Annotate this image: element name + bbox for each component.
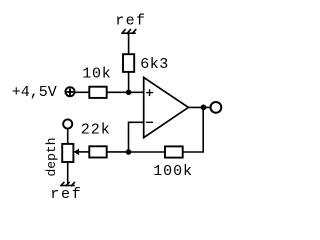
op-amp U1 bbox=[144, 77, 189, 137]
wire pot bottom to rail ref (bottom) bbox=[67, 162, 69, 186]
potentiometer wiper arrow bbox=[74, 149, 79, 156]
svg-text:100k: 100k bbox=[153, 163, 193, 180]
rail ref (top) bbox=[121, 29, 136, 34]
svg-text:22k: 22k bbox=[81, 121, 111, 138]
wire terminal to R 10k bbox=[75, 91, 89, 93]
svg-text:10k: 10k bbox=[82, 66, 111, 83]
output terminal circle bbox=[211, 102, 222, 113]
wire R 10k to op-amp + input bbox=[107, 91, 144, 93]
input terminal +4,5V bbox=[65, 87, 74, 96]
node B junction dot bbox=[126, 149, 132, 155]
potentiometer depth: top terminal circle bbox=[63, 119, 72, 128]
resistor 6k3 bbox=[123, 54, 134, 72]
wire op-amp - input bbox=[129, 122, 144, 152]
svg-text:ref: ref bbox=[115, 13, 146, 30]
output node junction dot bbox=[201, 105, 207, 111]
resistor 22k bbox=[89, 146, 106, 157]
wire rail to R 6k3 bbox=[128, 33, 130, 54]
wire R 6k3 to node A bbox=[128, 72, 130, 92]
wire wiper to R 22k bbox=[79, 151, 90, 153]
wire op-amp output bbox=[188, 106, 210, 108]
wire node B to R 100k bbox=[129, 151, 166, 153]
node A junction dot bbox=[126, 90, 132, 96]
wire R 100k to output node bbox=[183, 107, 204, 152]
rail ref (bottom) bbox=[61, 182, 76, 186]
svg-text:6k3: 6k3 bbox=[140, 56, 169, 73]
resistor 100k bbox=[165, 146, 183, 157]
resistor 10k bbox=[89, 87, 106, 98]
svg-text:ref: ref bbox=[50, 186, 82, 203]
potentiometer body bbox=[62, 144, 73, 162]
wire pot circle to pot body bbox=[67, 129, 69, 144]
svg-text:depth: depth bbox=[44, 137, 59, 176]
svg-text:+4,5V: +4,5V bbox=[12, 84, 57, 101]
wire R 22k to node B bbox=[107, 151, 129, 153]
